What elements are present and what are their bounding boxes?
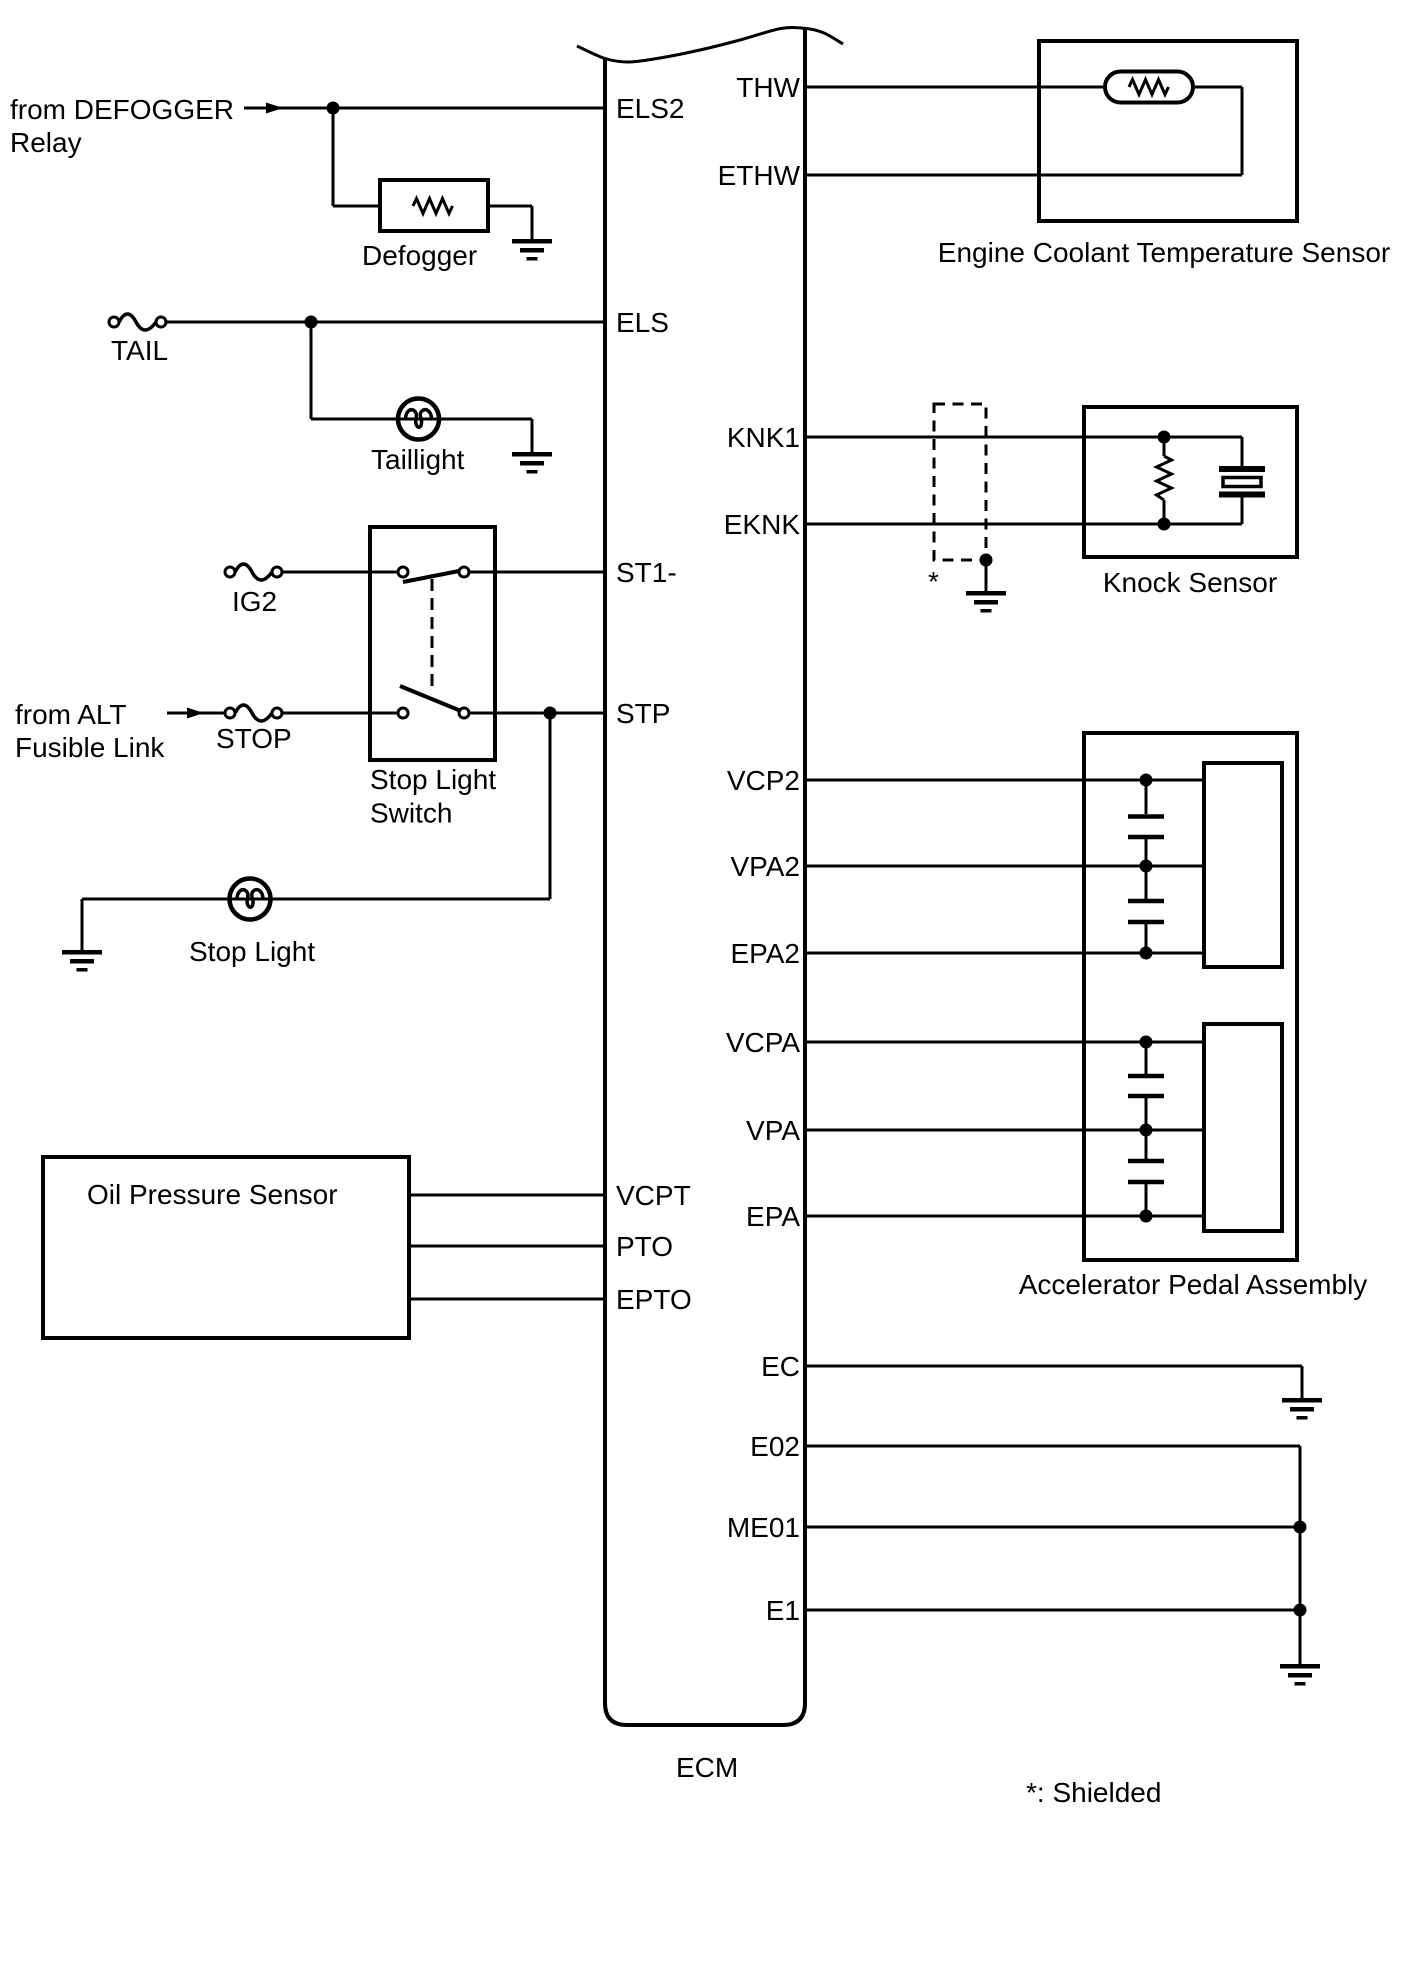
svg-text:E02: E02	[750, 1431, 800, 1462]
svg-text:ETHW: ETHW	[718, 160, 801, 191]
svg-text:VPA: VPA	[746, 1115, 800, 1146]
svg-text:VCPA: VCPA	[726, 1027, 800, 1058]
svg-text:Knock Sensor: Knock Sensor	[1103, 567, 1277, 598]
svg-text:EPA2: EPA2	[730, 938, 800, 969]
svg-text:Relay: Relay	[10, 127, 82, 158]
svg-text:KNK1: KNK1	[727, 422, 800, 453]
svg-text:from DEFOGGER: from DEFOGGER	[10, 94, 234, 125]
svg-text:Taillight: Taillight	[371, 444, 465, 475]
svg-text:IG2: IG2	[232, 586, 277, 617]
svg-text:Accelerator Pedal Assembly: Accelerator Pedal Assembly	[1019, 1269, 1368, 1300]
svg-text:THW: THW	[736, 72, 800, 103]
svg-text:from ALT: from ALT	[15, 699, 127, 730]
svg-text:EPA: EPA	[746, 1201, 800, 1232]
svg-text:VCP2: VCP2	[727, 765, 800, 796]
svg-text:EPTO: EPTO	[616, 1284, 692, 1315]
svg-text:ST1-: ST1-	[616, 557, 677, 588]
svg-text:VPA2: VPA2	[730, 851, 800, 882]
svg-text:STP: STP	[616, 698, 670, 729]
svg-text:TAIL: TAIL	[111, 335, 168, 366]
svg-text:Stop Light: Stop Light	[189, 936, 315, 967]
svg-text:Switch: Switch	[370, 798, 452, 829]
svg-text:Engine Coolant Temperature Sen: Engine Coolant Temperature Sensor	[938, 237, 1390, 268]
svg-text:ME01: ME01	[727, 1512, 800, 1543]
svg-text:EC: EC	[761, 1351, 800, 1382]
svg-text:PTO: PTO	[616, 1231, 673, 1262]
svg-text:*: Shielded: *: Shielded	[1026, 1777, 1161, 1808]
svg-text:VCPT: VCPT	[616, 1180, 691, 1211]
svg-text:ELS: ELS	[616, 307, 669, 338]
svg-text:ELS2: ELS2	[616, 93, 685, 124]
svg-text:*: *	[928, 566, 939, 597]
svg-text:Stop Light: Stop Light	[370, 764, 496, 795]
svg-text:E1: E1	[766, 1595, 800, 1626]
svg-text:EKNK: EKNK	[724, 509, 801, 540]
svg-text:Fusible Link: Fusible Link	[15, 732, 165, 763]
svg-text:ECM: ECM	[676, 1752, 738, 1783]
svg-text:STOP: STOP	[216, 723, 292, 754]
svg-text:Oil Pressure Sensor: Oil Pressure Sensor	[87, 1179, 338, 1210]
svg-text:Defogger: Defogger	[362, 240, 477, 271]
